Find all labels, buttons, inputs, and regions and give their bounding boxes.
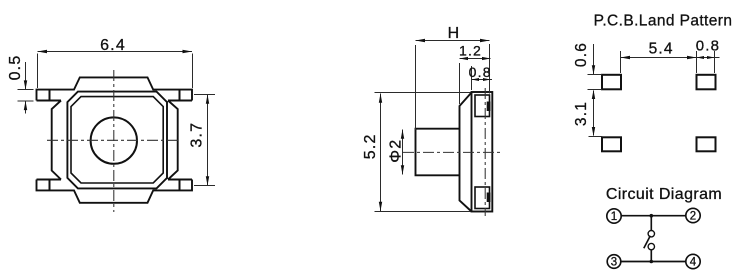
- svg-text:3: 3: [611, 257, 617, 269]
- terminal 4: [686, 254, 700, 268]
- pin bottom-left top edge: [37, 179, 62, 181]
- terminal 2: [686, 208, 700, 222]
- cover right tab: [168, 101, 178, 180]
- centerline horizontal (top view): [47, 139, 181, 141]
- svg-text:2: 2: [690, 211, 696, 223]
- pin top-left bottom edge: [37, 100, 62, 102]
- svg-text:P.C.B.Land Pattern: P.C.B.Land Pattern: [594, 13, 733, 30]
- lead bottom solder face: [487, 193, 491, 203]
- dimension 6.4 (top): [38, 52, 193, 89]
- dimension 1.2: [460, 59, 491, 105]
- plunger: [416, 129, 460, 176]
- svg-text:1.2: 1.2: [459, 43, 482, 59]
- wire bottom: [621, 261, 686, 263]
- lead top solder face: [487, 102, 491, 112]
- dimension 5.2: [375, 93, 471, 212]
- lead top: [475, 95, 490, 117]
- inner octagon: [71, 97, 163, 183]
- svg-text:0.5: 0.5: [7, 55, 24, 81]
- pad top-right: [697, 75, 716, 90]
- dimension 0.5 (left): [18, 62, 34, 114]
- junction dot bottom: [650, 260, 654, 264]
- centerline vertical (top view): [113, 70, 115, 212]
- cover outline (chamfered square): [67, 92, 167, 189]
- pin bottom-right divider: [179, 180, 181, 191]
- svg-text:5.2: 5.2: [362, 133, 379, 159]
- wire to top contact: [650, 216, 652, 231]
- pin bottom-right top edge: [168, 179, 192, 181]
- actuator circle: [91, 117, 137, 163]
- wire top: [621, 215, 686, 217]
- pin top-right bottom edge: [168, 100, 192, 102]
- pad top-left: [602, 75, 621, 90]
- cover flange: [460, 93, 472, 212]
- svg-text:1: 1: [611, 211, 617, 223]
- body block: [472, 92, 493, 212]
- junction dot top: [650, 214, 654, 218]
- dimension 0.8 (side view): [472, 66, 493, 90]
- pad bottom-left: [602, 137, 621, 151]
- dimension 0.6: [588, 44, 603, 136]
- svg-text:Circuit Diagram: Circuit Diagram: [606, 186, 722, 203]
- terminal 1: [607, 209, 621, 223]
- svg-text:3.7: 3.7: [189, 122, 206, 148]
- dimension 3.7 (right): [194, 95, 215, 186]
- bottom profile: pins + cover bottom tab: [37, 180, 193, 203]
- pin top-right divider: [179, 90, 181, 101]
- svg-text:0.8: 0.8: [469, 64, 492, 80]
- pin top-left divider: [49, 90, 51, 101]
- svg-text:6.4: 6.4: [100, 37, 126, 54]
- svg-text:0.8: 0.8: [696, 37, 720, 54]
- dimension 5.4: [621, 51, 697, 73]
- lead bottom: [475, 187, 490, 209]
- svg-text:5.4: 5.4: [649, 40, 674, 57]
- top profile: pins + cover top tab: [37, 77, 193, 100]
- dimension H: [416, 41, 490, 131]
- svg-text:4: 4: [690, 257, 697, 269]
- wire from bottom contact: [650, 250, 652, 262]
- svg-text:Φ2: Φ2: [388, 139, 405, 163]
- centerline vertical (side view leads): [484, 88, 486, 216]
- cover left tab: [52, 101, 61, 180]
- pad bottom-right: [697, 137, 716, 151]
- dimension 0.8 (land): [697, 51, 720, 73]
- svg-text:H: H: [448, 25, 460, 42]
- contact top: [648, 231, 654, 237]
- pin bottom-left divider: [49, 180, 51, 191]
- dimension phi2: [402, 130, 404, 175]
- svg-text:0.6: 0.6: [573, 42, 590, 67]
- contact bottom: [648, 243, 654, 249]
- terminal 3: [607, 255, 621, 269]
- switch lever: [644, 236, 651, 249]
- svg-text:3.1: 3.1: [573, 101, 590, 126]
- dimension 3.1: [589, 136, 603, 138]
- centerline horizontal (side view): [403, 151, 502, 153]
